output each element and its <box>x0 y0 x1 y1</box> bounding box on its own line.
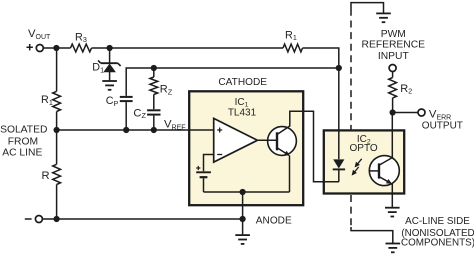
svg-text:R2: R2 <box>400 83 412 96</box>
svg-text:ANODE: ANODE <box>256 215 292 226</box>
phototransistor Q2 circle <box>369 156 399 186</box>
ground top-right <box>376 12 391 14</box>
minus sign <box>25 218 32 220</box>
terminal PWM input <box>389 65 396 72</box>
phototransistor base stub <box>370 170 379 172</box>
resistor R (divider bottom) <box>53 164 61 184</box>
op-amp minus input mark <box>217 154 222 156</box>
resistor R1 (divider top) <box>53 91 61 111</box>
svg-text:VREF: VREF <box>164 118 186 131</box>
svg-text:R: R <box>42 170 50 182</box>
capacitor CZ <box>147 110 160 130</box>
VREF rail wire <box>57 129 215 131</box>
node anode <box>240 216 246 222</box>
wire VREF rail to R <box>56 130 58 164</box>
opto LED diode <box>333 159 345 181</box>
bottom-right ground wire <box>351 227 393 243</box>
wire op-amp output to base <box>257 139 277 141</box>
transistor Q1 collector <box>277 111 339 182</box>
capacitor CP <box>120 97 133 130</box>
wire R3 to R1h <box>92 47 284 49</box>
svg-text:PWMREFERENCEINPUT: PWMREFERENCEINPUT <box>362 29 426 62</box>
op-amp U1 triangle <box>214 118 258 162</box>
op-amp plus input mark <box>217 128 222 133</box>
wire R1 to cathode node <box>303 48 339 68</box>
node CP bottom <box>123 127 129 133</box>
svg-text:R3: R3 <box>75 31 87 44</box>
svg-text:ISOLATEDFROMAC LINE: ISOLATEDFROMAC LINE <box>0 124 47 158</box>
node A (top of R1 divider) <box>53 45 59 51</box>
node VREF-left <box>54 127 60 133</box>
svg-text:VOUT: VOUT <box>28 28 51 41</box>
capacitor CP riser + comp rail <box>126 68 339 96</box>
internal reference battery <box>196 166 211 192</box>
LED cathode return wire <box>314 181 339 183</box>
node VERR <box>390 109 396 115</box>
node anode internal <box>240 189 246 195</box>
isolation dashed line lower <box>350 195 352 228</box>
wire VOUT to node A <box>43 47 70 49</box>
svg-text:R1: R1 <box>285 29 297 42</box>
terminal VERR <box>418 109 425 116</box>
node B (zener tap) <box>107 45 113 51</box>
resistor RZ <box>150 77 158 95</box>
resistor R2 <box>389 78 397 99</box>
IC2 opto-coupler block outline <box>324 130 404 193</box>
ground bottom-right <box>386 243 401 245</box>
svg-text:RZ: RZ <box>160 84 173 97</box>
IC1 TL431 block outline <box>189 91 303 205</box>
top-right ground wire <box>351 3 384 16</box>
ground below anode <box>235 234 250 236</box>
resistor R1 (top) <box>283 44 303 52</box>
svg-text:R1: R1 <box>41 94 53 107</box>
light arrows <box>355 162 360 168</box>
resistor R3 <box>71 44 92 52</box>
node bottom-left <box>54 216 60 222</box>
transistor Q1 base bar <box>276 132 278 150</box>
wire node B to D1 <box>109 48 111 63</box>
wire VERR node to opto collector <box>391 113 393 159</box>
node RZ top <box>151 65 157 71</box>
anode pin wire <box>242 192 244 234</box>
internal bottom wire <box>204 191 290 193</box>
wire to VERR terminal <box>393 112 418 114</box>
wire RZ leads <box>153 68 155 109</box>
plus sign <box>27 44 33 50</box>
transistor Q1 circle <box>268 127 297 156</box>
svg-text:CP: CP <box>106 95 119 108</box>
cathode node <box>336 65 342 71</box>
terminal + VOUT <box>36 45 43 52</box>
phototransistor emitter <box>379 177 391 184</box>
svg-text:CATHODE: CATHODE <box>218 77 267 88</box>
wire PWM terminal to R2 <box>392 72 394 78</box>
ground below opto emitter <box>385 207 400 209</box>
ground below D1 <box>102 80 117 82</box>
wire minus input to reference <box>204 155 214 172</box>
wire R2 to VERR node <box>392 98 394 113</box>
transistor Q1 emitter <box>277 148 289 155</box>
svg-text:AC-LINE SIDE(NONISOLATEDCOMPON: AC-LINE SIDE(NONISOLATEDCOMPONENTS) <box>401 216 474 248</box>
bottom rail wire <box>42 218 242 220</box>
wire R to bottom rail <box>56 185 58 220</box>
terminal minus <box>35 216 42 223</box>
svg-text:CZ: CZ <box>133 107 146 120</box>
wire node A down to R1v <box>56 48 58 91</box>
svg-text:OUTPUT: OUTPUT <box>422 120 463 131</box>
node CZ bottom <box>151 127 157 133</box>
phototransistor collector <box>379 158 392 166</box>
isolation dashed line upper <box>350 21 352 131</box>
wire cathode node to LED anode <box>338 68 340 159</box>
wire R1v to VREF rail <box>56 112 58 131</box>
zener diode D1 <box>98 60 121 80</box>
phototransistor base bar <box>378 163 380 178</box>
